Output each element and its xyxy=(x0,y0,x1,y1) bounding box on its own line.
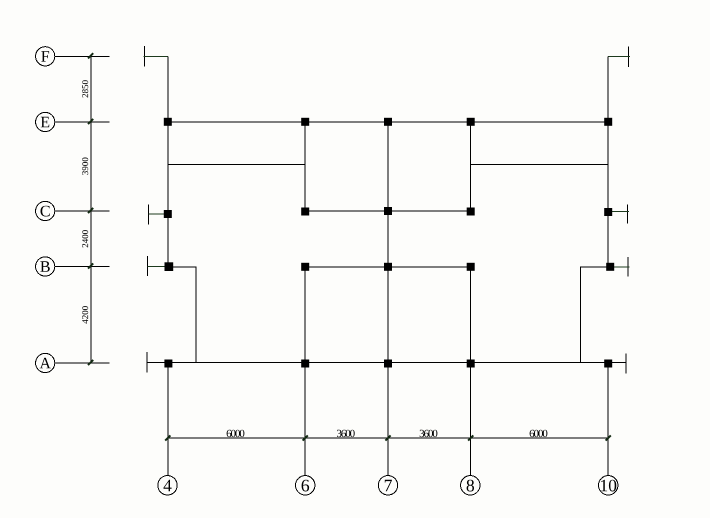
grid bubble E xyxy=(36,112,55,131)
wall outline B-A right step xyxy=(581,267,609,363)
left dimension line xyxy=(90,56,92,363)
column A-6 xyxy=(301,360,309,368)
extension line column 10 (A to bubble) xyxy=(607,368,609,476)
grid line E stub xyxy=(55,121,110,123)
column B-10 xyxy=(606,263,614,271)
extension line column 7 (A to bubble) xyxy=(387,368,389,476)
bottom dimension line xyxy=(168,437,608,439)
grid bubble F xyxy=(36,47,55,66)
wall outline B-A left step xyxy=(168,267,196,363)
column C-7 xyxy=(384,207,392,215)
beam line row B (6 to 8) xyxy=(305,266,471,268)
axis A right terminator tick xyxy=(625,354,627,374)
column A-4 xyxy=(164,360,172,368)
column C-10 xyxy=(604,208,612,216)
column E-4 xyxy=(164,118,172,126)
grid bubble 4 xyxy=(158,476,177,495)
axis A left terminator tick xyxy=(146,352,148,373)
beam line mid E-C left (4 to 6) xyxy=(168,164,305,166)
grid bubble B xyxy=(36,257,55,276)
column C-8 xyxy=(467,208,475,216)
dimension text 3900 xyxy=(82,158,88,175)
bottom dim tick 6 xyxy=(303,435,308,440)
left dim tick A xyxy=(88,360,93,365)
bottom dim tick 7 xyxy=(385,435,390,440)
axis B left stub xyxy=(147,266,165,268)
wall line column 6 (B to A) xyxy=(304,267,306,363)
axis F left terminator tick xyxy=(143,46,145,67)
wall line column 10 (F to B) xyxy=(607,56,609,266)
beam line mid E-C right (8 to 10) xyxy=(471,164,609,166)
dimension text 2400 xyxy=(82,230,88,247)
wall line column 6 (E to C) xyxy=(304,122,306,211)
grid line C stub xyxy=(55,210,110,212)
grid line A stub xyxy=(55,362,110,364)
grid line F stub xyxy=(55,55,110,57)
dimension text 2850 xyxy=(82,80,88,97)
extension line column 8 (A to bubble) xyxy=(470,368,472,476)
axis F right stub xyxy=(608,55,630,57)
column E-8 xyxy=(467,118,475,126)
axis B right stub xyxy=(612,266,630,268)
column C-6 xyxy=(301,208,309,216)
extension line column 4 (A to bubble) xyxy=(167,368,169,476)
axis B left terminator tick xyxy=(146,256,148,276)
column E-10 xyxy=(604,118,612,126)
bottom dim tick 4 xyxy=(165,435,170,440)
grid line B stub xyxy=(55,266,110,268)
wall line column 4 (F to B) xyxy=(167,56,169,266)
column E-6 xyxy=(301,118,309,126)
column A-10 xyxy=(604,360,612,368)
column B-6 xyxy=(301,263,309,271)
axis C right terminator tick xyxy=(627,204,629,223)
wall line column 10 (C to B) xyxy=(607,211,609,267)
column C-4 xyxy=(164,210,172,218)
wall line column 8 (B to A) xyxy=(470,267,472,363)
column squares row E xyxy=(164,118,614,368)
wall line column 8 (E to C) xyxy=(470,122,472,211)
bottom dim tick 8 xyxy=(468,435,473,440)
axis C right stub xyxy=(612,211,629,213)
beam line row C (6 to 8) xyxy=(305,210,471,212)
axis C left terminator tick xyxy=(148,204,150,224)
column E-7 xyxy=(384,118,392,126)
axis C left stub xyxy=(149,213,165,215)
grid bubble 7 xyxy=(378,476,397,495)
column A-7 xyxy=(384,360,392,368)
beam line row A xyxy=(147,362,626,364)
column A-8 xyxy=(467,360,475,368)
dimension text 6000 right xyxy=(530,430,548,437)
column B-8 xyxy=(467,263,475,271)
grid bubble 10 xyxy=(599,476,618,495)
left dim tick C xyxy=(88,208,93,213)
beam line row E xyxy=(168,121,608,123)
grid bubble A xyxy=(36,353,55,372)
wall line column 7 (E to A) xyxy=(387,122,389,363)
extension line column 6 (A to bubble) xyxy=(304,368,306,476)
bottom dim tick 10 xyxy=(606,435,611,440)
left dim tick E xyxy=(88,119,93,124)
left dim tick B xyxy=(88,263,93,268)
column B-4 xyxy=(165,262,174,271)
grid bubble C xyxy=(36,201,55,220)
dimension text 3600 left xyxy=(337,430,355,437)
dimension text 3600 right xyxy=(420,430,438,437)
column B-7 xyxy=(384,263,392,271)
left dim tick F xyxy=(88,53,93,58)
axis F left stub xyxy=(144,55,168,57)
axis B right terminator tick xyxy=(627,257,629,277)
dimension text 4200 xyxy=(82,306,88,324)
dimension text 6000 left xyxy=(227,430,245,437)
axis F right terminator tick xyxy=(627,47,629,68)
grid bubble 6 xyxy=(296,476,315,495)
grid bubble 8 xyxy=(461,476,480,495)
